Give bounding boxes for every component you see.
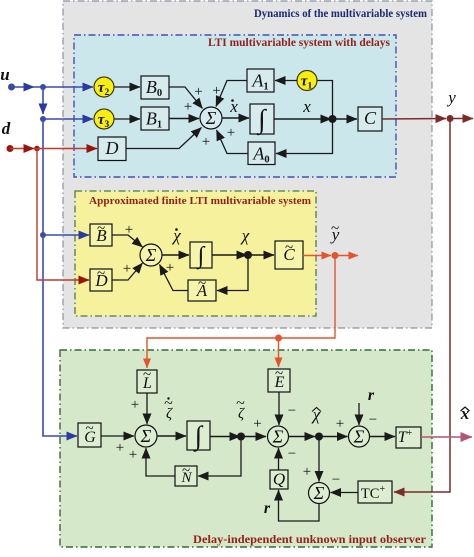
svg-text:+: + — [202, 134, 210, 150]
block Tplus — [396, 427, 421, 448]
wire I3 to zetatilde junction — [210, 436, 240, 438]
wire y feedback down to TCplus — [394, 119, 450, 493]
integrator I2 — [190, 242, 212, 268]
wire Ltilde to summer S3 — [146, 393, 148, 424]
wire B0 to summer S1 — [169, 87, 203, 109]
wire u junction to delay tau2 — [34, 86, 93, 88]
wire u input to junction — [12, 86, 35, 88]
svg-text:r: r — [264, 500, 271, 517]
svg-text:+: + — [227, 125, 235, 141]
svg-text:x: x — [302, 97, 311, 116]
wire d vertical down to block Dtilde — [37, 149, 89, 281]
wire d junction to block D — [34, 148, 97, 150]
svg-text:~: ~ — [97, 221, 105, 237]
wire u vertical down to yellow box — [42, 119, 44, 235]
junction x node — [329, 115, 337, 123]
svg-text:y: y — [446, 88, 456, 107]
svg-text:~: ~ — [85, 421, 93, 437]
junction chihat node — [315, 433, 323, 441]
wire Q to summer S4 — [278, 448, 280, 470]
block Ntilde — [175, 466, 197, 486]
block B1 — [141, 107, 169, 130]
wire S5 to block Tplus — [370, 436, 396, 438]
wire chi junction to block Ctilde — [248, 254, 274, 256]
wire A0 to summer S1 — [217, 130, 249, 154]
svg-text:r: r — [368, 387, 375, 404]
summer S2 — [140, 244, 162, 266]
svg-text:−: − — [369, 412, 377, 428]
svg-text:+: + — [129, 447, 137, 463]
wire ytilde junction down to Etilde — [278, 338, 280, 367]
block D — [98, 137, 126, 161]
svg-text:+: + — [166, 260, 174, 276]
svg-text:~: ~ — [97, 266, 105, 282]
integrator I3 — [187, 421, 210, 450]
wire I1 to x junction — [274, 118, 331, 120]
junction ytilde node — [332, 252, 339, 259]
wire tau3 to block B1 — [114, 118, 140, 120]
junction zetatilde node — [237, 433, 245, 441]
block Gtilde — [78, 423, 101, 447]
svg-text:−: − — [288, 446, 296, 462]
wire chi junction down to block Atilde — [217, 255, 248, 291]
wire Atilde to summer S2 — [160, 265, 189, 291]
svg-text:∫: ∫ — [193, 420, 204, 452]
svg-text:Σ: Σ — [272, 427, 284, 447]
wire S3 to integrator I3 — [157, 435, 186, 437]
svg-text:+: + — [336, 416, 344, 432]
wire d input to junction — [10, 148, 34, 150]
svg-text:~: ~ — [275, 366, 283, 382]
output ytilde arrow — [335, 255, 358, 257]
junction u lower node — [40, 116, 46, 122]
wire A1 to summer S1 — [216, 81, 247, 107]
input r to summer S5 — [358, 403, 360, 425]
wire D to summer S1 — [126, 128, 202, 149]
wire TCplus to summer S6 — [331, 492, 359, 494]
delay tau3 — [94, 109, 114, 129]
wire u junction down to tau3 row — [42, 87, 44, 114]
output xhat arrow — [421, 436, 472, 438]
svg-text:+: + — [194, 84, 202, 100]
junction d node — [34, 146, 40, 152]
svg-text:Q: Q — [273, 470, 285, 489]
output y arrow — [450, 118, 473, 120]
svg-text:χ: χ — [240, 226, 250, 245]
block B0 — [141, 76, 169, 99]
wire chihat junction to summer S5 — [319, 436, 348, 438]
summer S1 — [200, 107, 222, 129]
summer S4 — [268, 426, 289, 447]
block A0 — [248, 142, 275, 165]
summer S6 — [309, 483, 330, 504]
delay tau1 — [297, 71, 317, 91]
svg-text:+: + — [184, 99, 192, 115]
yellow subsystem box: Approximated finite LTI multivariable system — [75, 191, 316, 316]
summer S3 — [135, 425, 157, 447]
junction chi node — [244, 251, 252, 259]
block Atilde — [188, 280, 216, 301]
block Q — [270, 470, 288, 489]
svg-text:∫: ∫ — [196, 243, 206, 270]
integrator I1 — [250, 104, 274, 134]
junction u node — [40, 84, 46, 90]
svg-text:Approximated finite LTI multiv: Approximated finite LTI multivariable sy… — [89, 195, 311, 207]
blue subsystem box: LTI multivariable system with delays — [74, 35, 396, 177]
svg-text:+: + — [116, 440, 124, 456]
wire ytilde feedback down to observer — [147, 256, 335, 369]
wire Etilde to summer S4 — [278, 392, 280, 425]
wire x feedback up to tau1 — [317, 81, 333, 120]
svg-text:−: − — [288, 403, 296, 419]
junction ytilde node above Etilde — [275, 335, 282, 342]
wire u vertical down to green box — [43, 235, 77, 436]
wire S2 to integrator I2 — [162, 254, 189, 256]
wire x junction to block C — [333, 118, 358, 120]
input u source dot — [8, 84, 15, 91]
svg-text:~: ~ — [143, 367, 151, 383]
svg-text:~: ~ — [198, 276, 206, 292]
svg-text:u: u — [0, 65, 9, 84]
svg-text:C: C — [364, 108, 377, 128]
delay tau2 — [94, 77, 114, 97]
wire S4 to chihat junction — [289, 436, 316, 438]
block Ltilde — [137, 370, 157, 393]
wire S6 down to block Q — [279, 490, 320, 521]
svg-text:d: d — [2, 119, 11, 138]
summer S5 — [349, 426, 370, 447]
block Ctilde — [275, 241, 303, 269]
wire Gtilde to summer S3 — [101, 435, 134, 437]
svg-text:+: + — [131, 397, 139, 413]
wire junction to delay tau3 — [43, 118, 93, 120]
svg-text:x: x — [229, 97, 238, 116]
wire zetatilde junction to summer S4 — [241, 436, 266, 438]
wire S1 to integrator I1 — [222, 117, 249, 119]
svg-text:Delay-independent unknown inpu: Delay-independent unknown input observer — [193, 534, 426, 546]
wire Btilde to summer S2 — [112, 235, 143, 247]
svg-text:∫: ∫ — [256, 104, 267, 136]
svg-text:D: D — [105, 138, 119, 158]
svg-text:−: − — [332, 472, 340, 488]
svg-text:~: ~ — [285, 240, 293, 256]
svg-text:+: + — [212, 83, 220, 99]
block TCplus — [358, 481, 392, 503]
svg-text:+: + — [123, 261, 131, 277]
svg-text:+: + — [125, 222, 133, 238]
svg-text:~: ~ — [331, 221, 339, 237]
svg-text:~: ~ — [182, 463, 190, 479]
junction u node at yellow box — [40, 232, 46, 238]
wire Dtilde to summer S2 — [112, 263, 143, 280]
junction y node — [447, 115, 454, 122]
block Etilde — [268, 369, 290, 392]
svg-text:LTI multivariable system with: LTI multivariable system with delays — [208, 37, 391, 49]
svg-text:Σ: Σ — [205, 108, 217, 128]
wire Ntilde to summer S3 — [146, 448, 175, 476]
wire C to y junction — [382, 118, 446, 121]
wire chihat junction down to summer S6 — [318, 437, 320, 482]
outer dashed container: Dynamics of the multivariable system — [63, 1, 432, 328]
block A1 — [247, 69, 274, 92]
wire I2 to chi junction — [212, 254, 247, 256]
input d source dot — [7, 145, 14, 152]
block C — [358, 107, 382, 131]
svg-text:+: + — [253, 416, 261, 432]
svg-text:~: ~ — [236, 395, 245, 412]
green subsystem box: Delay-independent unknown input observer — [60, 350, 432, 547]
wire x junction down to block A0 — [276, 119, 333, 154]
block Btilde — [90, 224, 112, 246]
wire zetatilde junction down to Ntilde — [198, 437, 241, 477]
svg-text:Σ: Σ — [313, 483, 325, 503]
svg-text:Σ: Σ — [140, 426, 152, 446]
svg-text:+: + — [303, 464, 311, 480]
wire tau1 to block A1 — [275, 80, 297, 82]
svg-text:Σ: Σ — [353, 427, 365, 447]
wire u junction to block Btilde — [43, 234, 89, 236]
wire Ctilde to ytilde junction — [303, 255, 331, 257]
svg-text:Dynamics of the multivariable: Dynamics of the multivariable system — [254, 8, 427, 20]
block Dtilde — [90, 269, 112, 291]
wire tau2 to block B0 — [114, 86, 140, 88]
wire B1 to summer S1 — [169, 118, 199, 120]
svg-text:Σ: Σ — [145, 245, 157, 265]
